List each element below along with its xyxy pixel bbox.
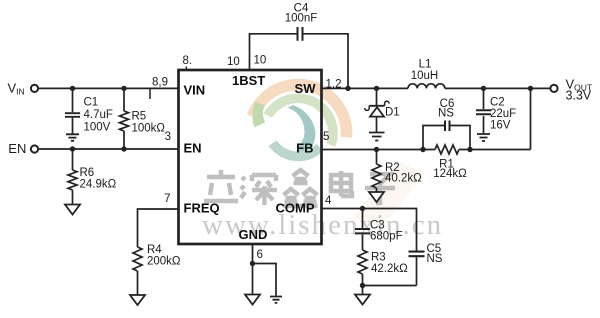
svg-text:40.2kΩ: 40.2kΩ <box>385 173 422 185</box>
svg-text:FB: FB <box>296 141 313 156</box>
svg-text:24.9kΩ: 24.9kΩ <box>80 179 117 191</box>
svg-text:1BST: 1BST <box>232 73 265 88</box>
svg-text:EN: EN <box>184 141 202 156</box>
svg-text:VIN: VIN <box>184 83 206 98</box>
svg-text:100V: 100V <box>84 121 111 133</box>
svg-text:1,2: 1,2 <box>326 79 342 91</box>
svg-text:C2: C2 <box>490 97 505 109</box>
svg-text:42.2kΩ: 42.2kΩ <box>371 263 408 275</box>
svg-text:10: 10 <box>254 55 267 67</box>
svg-text:R3: R3 <box>371 252 386 264</box>
svg-text:22uF: 22uF <box>490 108 516 120</box>
svg-text:100kΩ: 100kΩ <box>132 122 166 134</box>
svg-text:FREQ: FREQ <box>184 200 220 215</box>
svg-text:8.: 8. <box>183 55 193 67</box>
svg-text:GND: GND <box>239 227 268 242</box>
svg-text:R4: R4 <box>147 244 162 256</box>
svg-text:R6: R6 <box>80 167 95 179</box>
svg-text:16V: 16V <box>490 120 511 132</box>
svg-text:3.3V: 3.3V <box>566 89 592 103</box>
svg-text:124kΩ: 124kΩ <box>433 168 467 180</box>
svg-text:L1: L1 <box>419 59 432 71</box>
svg-text:SW: SW <box>295 81 317 96</box>
svg-text:NS: NS <box>438 108 454 120</box>
svg-text:4: 4 <box>325 195 332 207</box>
svg-text:680pF: 680pF <box>370 231 403 243</box>
svg-text:C1: C1 <box>84 97 99 109</box>
svg-text:10uH: 10uH <box>411 70 439 82</box>
svg-text:7: 7 <box>164 193 170 205</box>
svg-text:C3: C3 <box>370 220 385 232</box>
svg-text:3: 3 <box>165 131 171 143</box>
svg-text:6: 6 <box>257 249 263 261</box>
svg-text:COMP: COMP <box>276 200 315 215</box>
svg-text:D1: D1 <box>385 107 400 119</box>
svg-text:EN: EN <box>8 141 26 156</box>
svg-text:10: 10 <box>227 56 240 68</box>
svg-text:NS: NS <box>427 253 443 265</box>
svg-text:5: 5 <box>323 131 329 143</box>
svg-text:100nF: 100nF <box>285 13 318 25</box>
svg-text:4.7uF: 4.7uF <box>84 109 113 121</box>
svg-text:8,9: 8,9 <box>152 77 168 89</box>
svg-text:R5: R5 <box>132 111 147 123</box>
svg-text:200kΩ: 200kΩ <box>147 256 181 268</box>
